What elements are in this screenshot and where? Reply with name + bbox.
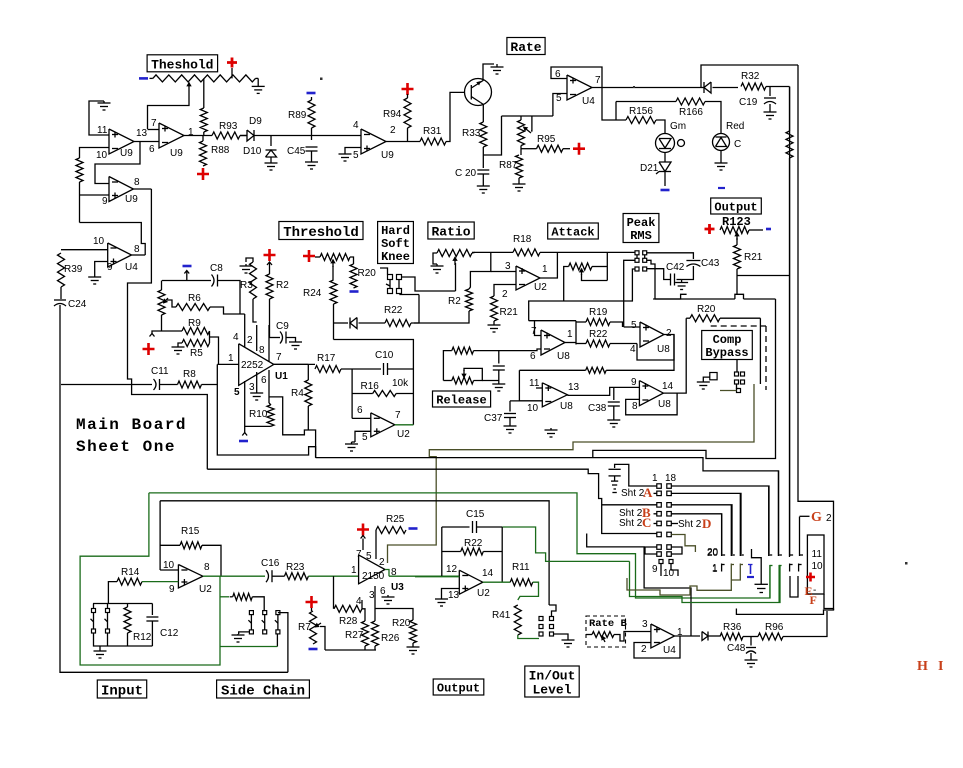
wire pin C wire (602, 504, 657, 506)
svg-text:R88: R88 (211, 145, 230, 156)
svg-text:In/Out: In/Out (529, 669, 576, 684)
resistor R14 (117, 578, 142, 585)
wire U4a feedback (80, 223, 146, 256)
wire R4 lead (307, 364, 309, 380)
svg-text:R15: R15 (181, 526, 200, 537)
svg-text:U8: U8 (557, 351, 570, 362)
svg-text:20: 20 (707, 548, 719, 559)
wire U8d out (663, 318, 686, 393)
op-amp U9b (159, 123, 184, 148)
wire rel left (443, 351, 451, 381)
svg-text:Theshold: Theshold (151, 57, 213, 72)
wire pot wiper down (148, 90, 190, 129)
wire box right (501, 527, 503, 582)
wire trim rail (502, 115, 553, 117)
wire pin6 branch (269, 397, 316, 458)
wire olive drop a (627, 564, 731, 596)
label box Attack (548, 223, 599, 239)
wire LED to zener (664, 153, 666, 163)
wire pin6 line (474, 349, 541, 351)
capacitor C42 (670, 274, 672, 286)
resistor R156 (626, 117, 656, 124)
tiny dot2 (633, 86, 635, 88)
svg-text:8: 8 (632, 401, 638, 412)
wire knee fet line (400, 294, 419, 295)
ground (498, 383, 500, 385)
resistor R22a (385, 320, 411, 327)
capacitor C24 (54, 299, 66, 301)
wire lower branch (132, 385, 208, 470)
resistor R95 (522, 148, 537, 150)
ground small (245, 264, 247, 266)
wire input box (159, 501, 161, 570)
release resistor (452, 347, 474, 354)
svg-text:C8: C8 (210, 263, 223, 274)
wire Red LED bottom (720, 151, 722, 162)
green pin ticks (770, 565, 773, 567)
svg-text:3: 3 (249, 382, 255, 393)
switch pin square (737, 389, 741, 393)
wire R21b down (736, 269, 738, 294)
svg-text:U4: U4 (125, 262, 138, 273)
wire C38 gnd (613, 406, 615, 418)
svg-text:R95: R95 (537, 134, 556, 145)
svg-text:9: 9 (631, 377, 637, 388)
wire outer box bottom (736, 609, 833, 615)
wire out node v (575, 321, 577, 345)
wire U3 green east (389, 575, 459, 577)
supply arrowY (150, 334, 155, 337)
wire outer box top (798, 65, 834, 610)
wire U8c feedback c (519, 370, 542, 401)
op-amp U4b (567, 75, 592, 100)
wire rel pot right (464, 368, 482, 380)
op-amp U2a (178, 565, 203, 589)
ground (567, 637, 569, 640)
ground (270, 161, 272, 163)
resistor R15 (180, 542, 202, 549)
label box Output2 (433, 679, 484, 695)
svg-text:C42: C42 (666, 262, 685, 273)
resistor R2b (466, 289, 473, 311)
svg-text:Red: Red (726, 121, 744, 132)
svg-text:1: 1 (652, 473, 658, 484)
wire R7 top (311, 608, 313, 611)
svg-text:2: 2 (641, 644, 647, 655)
wire r20d bot (412, 643, 414, 645)
wire pin9 gnd (95, 262, 108, 276)
svg-text:9: 9 (652, 564, 658, 575)
wire pin10 (80, 148, 110, 159)
wire sw right top east (647, 253, 694, 259)
svg-text:4: 4 (353, 120, 359, 131)
wire R17 to C10 (341, 368, 381, 370)
wire R10 bottom (245, 425, 271, 427)
wire pin5 gnd2 (352, 441, 356, 443)
resistor R31 (420, 138, 446, 145)
wire c15 east (477, 526, 502, 528)
wire green riser (630, 561, 781, 602)
svg-text:R9: R9 (188, 318, 201, 329)
svg-text:Sheet One: Sheet One (76, 438, 176, 456)
wire C10 right (388, 368, 413, 370)
power - mark (718, 187, 725, 189)
svg-text:R89: R89 (288, 110, 307, 121)
switch sc c (276, 611, 280, 615)
LED Red (713, 134, 730, 151)
wire right rail continue (789, 276, 791, 558)
wire notch (735, 294, 744, 299)
ground (613, 418, 615, 420)
svg-text:R166: R166 (679, 107, 703, 118)
wire sw2 bottom (107, 633, 109, 646)
bottom connector pin G (799, 517, 801, 556)
svg-text:R20: R20 (358, 268, 377, 279)
svg-text:G: G (811, 510, 822, 525)
switch input a (92, 609, 96, 613)
vca chip U1 (239, 344, 274, 386)
svg-text:D21: D21 (640, 163, 659, 174)
svg-text:1: 1 (351, 565, 357, 576)
wire sc to switches (252, 597, 264, 611)
svg-text:Comp: Comp (713, 333, 742, 347)
resistor R25 (376, 527, 406, 534)
svg-text:R11: R11 (512, 562, 530, 573)
svg-text:R36: R36 (723, 622, 742, 633)
wire trim wiper (530, 116, 533, 131)
switch sc a (249, 611, 253, 615)
svg-text:D10: D10 (243, 146, 262, 157)
resistor R9 (182, 328, 210, 335)
switch comp bypass (735, 372, 739, 376)
svg-text:R23: R23 (286, 562, 305, 573)
wire D9 to opamp pin4 (254, 135, 361, 137)
wire top rail (186, 276, 188, 281)
capacitor C45 (306, 146, 318, 148)
wire pin2 line (256, 325, 258, 351)
wire left tap (152, 331, 162, 334)
wire U2a out green (203, 575, 220, 577)
wire ratio left gnd (433, 253, 437, 264)
wire R15 right (202, 545, 221, 576)
indicator circle (678, 140, 685, 147)
supply arrow2 (186, 271, 188, 276)
svg-text:2: 2 (390, 125, 396, 136)
resistor R18 (513, 249, 540, 256)
svg-text:C48: C48 (727, 643, 746, 654)
svg-text:R12: R12 (133, 632, 152, 643)
svg-text:R24: R24 (303, 288, 322, 299)
resistor R8 (178, 381, 202, 388)
wire R8 up to pin1 (202, 364, 218, 384)
wire sw2 top (107, 604, 109, 609)
svg-text:U2: U2 (477, 588, 490, 599)
wire R94 to line (407, 128, 409, 142)
label box In/Out Level (525, 666, 579, 697)
svg-text:R22: R22 (464, 538, 483, 549)
svg-text:R21: R21 (500, 307, 519, 318)
wire R7 wiper (320, 627, 325, 651)
resistor R89 (311, 97, 313, 100)
svg-text:13: 13 (568, 382, 580, 393)
svg-text:2: 2 (502, 289, 508, 300)
wire U4b feedback box (551, 67, 602, 88)
transistor Q1 (465, 79, 492, 106)
svg-text:2: 2 (666, 328, 672, 339)
power + mark (806, 573, 815, 582)
power + mark (306, 596, 318, 608)
power + mark (264, 249, 276, 261)
bottom connector pins upper (721, 514, 723, 556)
wire comp feed (653, 298, 735, 300)
potentiometer R123 (720, 227, 749, 234)
wire U4c out (675, 635, 701, 637)
wire R18 west (472, 251, 513, 253)
wire U9c output south (128, 189, 152, 385)
svg-text:C12: C12 (160, 628, 179, 639)
power + mark (573, 143, 585, 155)
svg-text:R28: R28 (339, 616, 358, 627)
svg-text:7: 7 (151, 118, 157, 129)
wire green pin2 (778, 565, 780, 603)
label box Threshold (279, 222, 363, 240)
svg-text:C: C (734, 139, 741, 150)
power - mark (766, 228, 771, 231)
resistor R22b (576, 343, 586, 345)
wire pin10 wire (160, 569, 178, 571)
wire lower drop1 (660, 564, 662, 577)
wire U4b output east (592, 87, 701, 89)
svg-text:R156: R156 (629, 106, 653, 117)
svg-text:U9: U9 (170, 148, 183, 159)
wire resistor to pin9 (79, 182, 81, 223)
inner box tail (824, 594, 834, 609)
svg-text:RMS: RMS (630, 229, 652, 243)
svg-text:U2: U2 (199, 584, 212, 595)
wire R12 top (127, 604, 129, 608)
wire rail h (162, 280, 211, 282)
resistor R36 (720, 633, 743, 640)
svg-text:R16: R16 (361, 381, 380, 392)
svg-text:R20: R20 (392, 618, 411, 629)
svg-text:5: 5 (556, 93, 562, 104)
connector pins right col (667, 484, 672, 489)
wire fan 2 (671, 493, 741, 554)
wire R24 down (333, 304, 335, 340)
svg-text:R5: R5 (190, 348, 203, 359)
svg-text:7: 7 (356, 549, 362, 560)
wire r26 bot (374, 646, 376, 650)
svg-text:6: 6 (357, 405, 363, 416)
wire trim wiper to R6 (167, 300, 176, 307)
svg-text:6: 6 (530, 351, 536, 362)
resistor R94 (407, 94, 409, 98)
feedback resistor (586, 367, 607, 373)
svg-text:C9: C9 (276, 321, 289, 332)
dash-dot line (711, 325, 766, 327)
svg-text:U4: U4 (582, 96, 595, 107)
wire U9c out (386, 141, 420, 143)
svg-text:R10: R10 (249, 409, 268, 420)
wire bottom rail (325, 649, 376, 651)
wire R22b right (610, 343, 637, 345)
svg-text:Rate: Rate (510, 40, 541, 55)
svg-text:Output: Output (714, 201, 757, 215)
svg-text:5: 5 (234, 387, 240, 398)
wire R4 bottom (307, 406, 309, 430)
wire fb right vertical (412, 369, 414, 425)
wire R19 right (610, 322, 623, 327)
svg-text:R25: R25 (386, 514, 405, 525)
svg-text:Knee: Knee (381, 250, 410, 264)
supply arrow3 (242, 433, 247, 436)
svg-text:18: 18 (665, 473, 677, 484)
wire pin7 arrow (362, 544, 364, 550)
resistor R93 (212, 132, 240, 139)
capacitor C48 (746, 647, 756, 649)
wire U4a output (132, 254, 146, 256)
wire R93 to D9 (240, 135, 247, 137)
svg-text:R3: R3 (240, 280, 253, 291)
ground (256, 392, 258, 393)
wire R14 to pin9 green (142, 581, 178, 583)
wire pin1 wire to cap (615, 464, 657, 486)
svg-text:8: 8 (134, 177, 140, 188)
wire comp box right (759, 318, 761, 384)
relay square (710, 373, 717, 380)
wire C37 tap (509, 401, 511, 412)
wire cap bot (498, 370, 500, 384)
bottom connector pin rail (789, 87, 791, 557)
power - mark (307, 92, 316, 95)
svg-text:R39: R39 (64, 264, 83, 275)
wire comp sw link (737, 384, 739, 389)
svg-text:U3: U3 (391, 582, 404, 593)
wire fan 3 (671, 505, 732, 554)
svg-text:D9: D9 (249, 116, 262, 127)
wire attack wiper (582, 274, 608, 281)
wire sw bottoms (94, 633, 153, 646)
potentiometer Ratio (437, 250, 472, 257)
svg-text:1: 1 (228, 353, 234, 364)
resistor R24 (330, 280, 337, 304)
resistor R3 (250, 262, 257, 299)
ground small (702, 381, 704, 382)
resistor R32 (741, 83, 766, 90)
svg-text:R41: R41 (492, 610, 511, 621)
tiny dot (905, 562, 908, 565)
wire C43 down (682, 266, 694, 280)
capacitor C9 (280, 332, 283, 344)
svg-text:C43: C43 (701, 258, 720, 269)
svg-text:6: 6 (149, 144, 155, 155)
wire U8c feedback b (606, 335, 674, 371)
wire D10 stub (270, 136, 272, 147)
wire drop to out (587, 534, 691, 637)
wire sw bot left (529, 269, 635, 321)
wire pot right to ground (256, 77, 259, 79)
power + mark (402, 83, 414, 95)
supply arrowR25 (361, 536, 366, 539)
wire fet top right (402, 277, 456, 291)
wire pin4 line (244, 314, 246, 347)
resistor R27 (362, 621, 369, 646)
trimpot rate trim (518, 120, 525, 146)
wire output branch down (95, 142, 140, 184)
switch Peak/RMS (635, 251, 639, 255)
wire pin11 to ground (89, 101, 109, 135)
wire C38 tap (613, 387, 615, 400)
svg-text:R8: R8 (183, 369, 196, 380)
wire rel pot left (443, 380, 451, 382)
svg-text:9: 9 (169, 584, 175, 595)
wire C9 gnd (287, 338, 296, 341)
wire C45 to gnd (311, 151, 313, 160)
svg-text:12: 12 (446, 564, 458, 575)
wire attack left (564, 267, 569, 302)
svg-text:5: 5 (353, 150, 359, 161)
ground (769, 110, 771, 112)
resistor R6 (176, 304, 210, 311)
svg-text:C24: C24 (68, 299, 87, 310)
wire R3 top (246, 258, 253, 262)
label box Release (433, 391, 491, 407)
svg-text:10: 10 (812, 561, 824, 572)
svg-text:U2: U2 (534, 282, 547, 293)
potentiometer Attack (569, 263, 592, 270)
svg-text:10: 10 (527, 403, 539, 414)
switch input b (106, 609, 110, 613)
diode D22 (704, 82, 711, 93)
svg-text:9: 9 (107, 262, 113, 273)
capacitor (hold) (609, 468, 621, 470)
wire gnd stub (99, 646, 101, 648)
wire gnd tap to C42 (677, 279, 682, 281)
wire C11 to R8 (160, 384, 178, 386)
ground (177, 345, 179, 347)
op-amp U9a (109, 129, 134, 154)
svg-text:3: 3 (369, 590, 375, 601)
resistor R17 (315, 366, 341, 373)
capacitor C15 (472, 521, 474, 533)
wire node to diode line (334, 322, 349, 324)
wire R32 to node (766, 86, 790, 88)
wire pin6 r26 (374, 586, 376, 621)
ground (482, 184, 484, 186)
wire cross rail (737, 275, 790, 277)
svg-text:4: 4 (630, 344, 636, 355)
wire pin13 gnd (442, 589, 460, 598)
wire input rail (93, 603, 152, 605)
wire rateb out (614, 632, 651, 642)
svg-text:C45: C45 (287, 146, 306, 157)
wire olive drop b (732, 564, 741, 581)
svg-text:A: A (643, 485, 653, 500)
wire R20c lead (686, 317, 690, 319)
wire R33 bottom node (482, 147, 484, 168)
wire D dash (671, 523, 678, 525)
svg-text:R20: R20 (697, 304, 716, 315)
wire pin5 line (244, 381, 246, 433)
resistor R12 (124, 607, 131, 633)
wire lower drop2 (671, 564, 678, 577)
capacitor C38 (608, 401, 620, 403)
resistor R39 (58, 253, 65, 287)
svg-text:Rate B: Rate B (589, 618, 628, 630)
svg-text:10k: 10k (392, 378, 409, 389)
capacitor C12 (146, 616, 158, 618)
svg-text:R32: R32 (741, 71, 760, 82)
